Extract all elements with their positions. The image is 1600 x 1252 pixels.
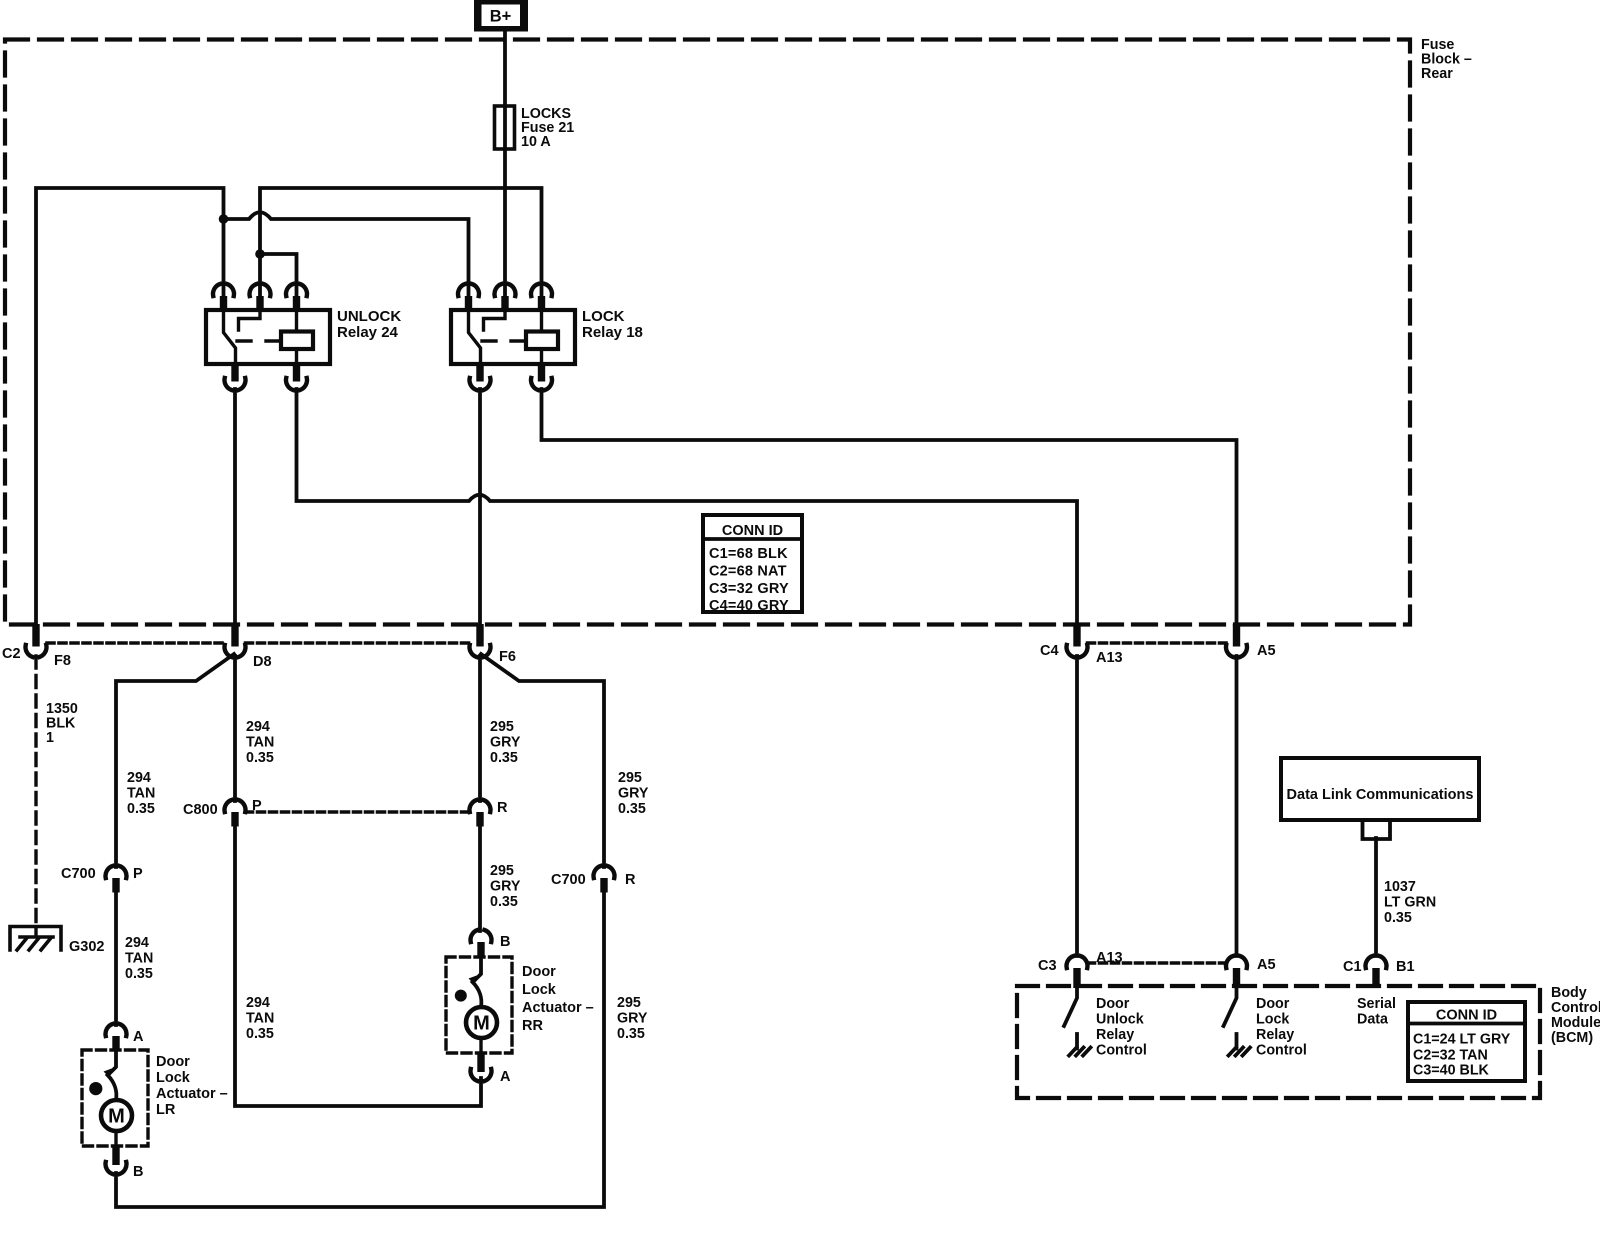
svg-text:0.35: 0.35 xyxy=(490,894,518,910)
svg-text:A: A xyxy=(500,1069,511,1085)
svg-text:B+: B+ xyxy=(490,8,512,26)
wire: C4 down to BCM C3 xyxy=(1075,656,1079,956)
connector C800 P xyxy=(224,800,245,827)
coil pin 86 top connector xyxy=(286,284,307,311)
wire: ground rail from C2/F8 up and across to UNLOCK relay pin 1 xyxy=(36,188,224,626)
junction node at (260,254) xyxy=(255,249,265,259)
wire label 295 GRY 0.35 (F6 column) xyxy=(490,719,521,766)
svg-text:Control: Control xyxy=(1256,1043,1307,1059)
svg-text:Serial: Serial xyxy=(1357,996,1396,1012)
CONN ID table (fuse block) xyxy=(703,515,802,614)
wire: F6 down to C800 R xyxy=(478,656,482,801)
svg-text:C700: C700 xyxy=(551,872,586,888)
svg-text:LOCK: LOCK xyxy=(582,308,625,325)
svg-text:Module: Module xyxy=(1551,1015,1600,1031)
connector C800 R xyxy=(469,800,490,827)
svg-text:R: R xyxy=(625,872,636,888)
wire: A5 down to BCM A5 xyxy=(1235,656,1239,956)
connector row dotted line C2-D8-F6 xyxy=(47,641,470,645)
svg-text:Relay 24: Relay 24 xyxy=(337,324,399,341)
C800 pass-through dotted line P-R xyxy=(246,810,470,814)
svg-text:C2=68 NAT: C2=68 NAT xyxy=(709,564,787,580)
wire: D8 branch diagonal to LR door lock actuator column xyxy=(116,654,234,867)
svg-text:C3=40 BLK: C3=40 BLK xyxy=(1413,1063,1490,1079)
svg-text:295: 295 xyxy=(490,719,514,735)
svg-text:Rear: Rear xyxy=(1421,66,1453,82)
wire label 295 GRY 0.35 (right column) xyxy=(618,770,649,817)
LR switch arrowhead xyxy=(104,1068,114,1078)
svg-text:294: 294 xyxy=(125,935,149,951)
svg-text:C1=68 BLK: C1=68 BLK xyxy=(709,546,788,562)
wire: LOCK coil return to A5 xyxy=(542,389,1237,628)
svg-text:A: A xyxy=(133,1029,144,1045)
svg-text:295: 295 xyxy=(618,770,642,786)
fixed contact from pin 87 xyxy=(484,311,506,330)
svg-text:295: 295 xyxy=(617,995,641,1011)
connector D8 xyxy=(224,624,245,657)
connector C3/A13 (BCM) xyxy=(1066,956,1087,988)
svg-text:0.35: 0.35 xyxy=(618,801,646,817)
wire: F6 branch diagonal to C700 R column xyxy=(481,654,604,867)
svg-text:GRY: GRY xyxy=(490,735,521,751)
connector C1/B1 (BCM) xyxy=(1365,956,1386,988)
svg-text:Unlock: Unlock xyxy=(1096,1012,1144,1028)
wire: C700 P down to LR actuator pin A xyxy=(114,891,118,1025)
BCM door unlock relay control switch xyxy=(1064,988,1077,1026)
fixed contact from pin 87 xyxy=(239,311,261,330)
svg-text:Lock: Lock xyxy=(522,982,557,998)
BCM unlock switch chassis ground xyxy=(1069,1034,1091,1056)
svg-text:LR: LR xyxy=(156,1102,176,1118)
coil return bottom connector xyxy=(286,364,307,390)
svg-text:D8: D8 xyxy=(253,654,272,670)
wire: C800 R down to RR actuator pin B xyxy=(478,825,482,931)
switch output bottom connector xyxy=(469,364,490,390)
svg-text:C700: C700 xyxy=(61,866,96,882)
wire label 1350 BLK 1 xyxy=(46,701,78,746)
svg-text:0.35: 0.35 xyxy=(246,1026,274,1042)
LR contact dot xyxy=(89,1082,102,1095)
svg-text:UNLOCK: UNLOCK xyxy=(337,308,401,325)
connector B (RR actuator) xyxy=(470,930,491,957)
BCM door lock relay control switch xyxy=(1224,988,1237,1026)
pin 87 top connector xyxy=(494,284,515,311)
wire: C800 P down, across bottom, up to RR actuator pin A xyxy=(235,825,481,1106)
svg-text:0.35: 0.35 xyxy=(246,750,274,766)
fuse LOCKS Fuse 21 10A xyxy=(495,106,515,149)
connector C700 R xyxy=(593,866,614,893)
svg-text:M: M xyxy=(473,1013,490,1035)
svg-text:Lock: Lock xyxy=(156,1070,191,1086)
svg-text:Control: Control xyxy=(1551,1000,1600,1016)
wire label 294 TAN 0.35 (below C700 P) xyxy=(125,935,153,982)
pin 87 top connector xyxy=(249,284,270,311)
svg-text:Lock: Lock xyxy=(1256,1012,1289,1028)
wire label 295 GRY 0.35 (below C800 R) xyxy=(490,863,521,910)
svg-text:Data Link Communications: Data Link Communications xyxy=(1287,787,1474,803)
svg-text:Door: Door xyxy=(522,964,556,980)
svg-text:Body: Body xyxy=(1551,985,1587,1001)
svg-text:B1: B1 xyxy=(1396,959,1415,975)
ground G302 xyxy=(10,927,61,951)
svg-text:P: P xyxy=(252,798,262,814)
svg-text:C2: C2 xyxy=(2,646,21,662)
svg-text:CONN ID: CONN ID xyxy=(722,523,783,539)
connector B (LR actuator, bottom) xyxy=(105,1146,126,1174)
DLC output bracket xyxy=(1363,821,1391,839)
svg-text:GRY: GRY xyxy=(490,879,521,895)
svg-text:294: 294 xyxy=(127,770,151,786)
body control module dashed border xyxy=(1017,986,1540,1098)
coil pin 86 top connector xyxy=(531,284,552,311)
coil lead xyxy=(540,311,543,364)
svg-text:C2=32 TAN: C2=32 TAN xyxy=(1413,1048,1488,1064)
svg-text:Actuator –: Actuator – xyxy=(522,1000,594,1016)
UNLOCK Relay 24 xyxy=(206,284,330,390)
switch blade xyxy=(469,311,481,364)
wire: branch from (260,254) to UNLOCK relay coil pin xyxy=(260,254,297,297)
svg-text:P: P xyxy=(133,866,143,882)
svg-text:TAN: TAN xyxy=(246,735,274,751)
Data Link Communications box xyxy=(1281,758,1479,820)
svg-text:C4: C4 xyxy=(1040,643,1059,659)
wire: 1350 BLK ground wire (dashed) xyxy=(34,656,37,935)
LR actuator label xyxy=(156,1054,228,1118)
wire: B+ feed down through fuse to LOCK relay pin (x=505) xyxy=(503,31,507,297)
svg-text:G302: G302 xyxy=(69,939,104,955)
svg-text:Control: Control xyxy=(1096,1043,1147,1059)
svg-text:Relay: Relay xyxy=(1256,1027,1294,1043)
switch blade xyxy=(224,311,236,364)
svg-text:0.35: 0.35 xyxy=(617,1026,645,1042)
coil return bottom connector xyxy=(531,364,552,390)
fuse block (rear) dashed border xyxy=(5,40,1410,625)
svg-text:(BCM): (BCM) xyxy=(1551,1030,1593,1046)
BCM label xyxy=(1551,985,1600,1046)
serial data label xyxy=(1357,996,1396,1028)
wire label 294 TAN 0.35 (left column) xyxy=(127,770,155,817)
RR actuator switch blade with arrow xyxy=(473,957,482,1007)
svg-text:10 A: 10 A xyxy=(521,134,551,150)
fuse block label xyxy=(1421,37,1472,82)
connector A (LR actuator) xyxy=(105,1024,126,1051)
svg-text:A5: A5 xyxy=(1257,643,1276,659)
svg-text:C3=32 GRY: C3=32 GRY xyxy=(709,581,789,597)
svg-text:Data: Data xyxy=(1357,1012,1389,1028)
wire: D8 down to C800 P xyxy=(233,656,237,801)
svg-text:RR: RR xyxy=(522,1018,543,1034)
junction node at (223.5,219) xyxy=(219,214,229,224)
connector row dotted line C4-A5 xyxy=(1088,641,1227,645)
door lock actuator LR box xyxy=(82,1050,148,1146)
svg-text:F8: F8 xyxy=(54,653,71,669)
fuse value label xyxy=(521,106,574,150)
svg-text:295: 295 xyxy=(490,863,514,879)
relay coil xyxy=(281,332,313,350)
svg-text:C4=40 GRY: C4=40 GRY xyxy=(709,598,789,614)
connector row dotted line C3-A5 xyxy=(1088,961,1227,965)
RR switch arrowhead xyxy=(469,975,479,985)
svg-text:B: B xyxy=(133,1164,143,1180)
svg-text:Door: Door xyxy=(1096,996,1130,1012)
switch output bottom connector xyxy=(224,364,245,390)
svg-text:TAN: TAN xyxy=(125,951,153,967)
wire: cross rail tying relay pin-1 columns (hops over x=260 wire) xyxy=(224,212,469,297)
connector A (RR actuator, bottom) xyxy=(470,1053,491,1081)
wire: LOCK switch output down to F6 xyxy=(478,389,482,626)
coil-to-switch dashed link xyxy=(237,339,280,342)
wire: serial data 1037 LT GRN to BCM C1 xyxy=(1374,838,1378,956)
svg-text:294: 294 xyxy=(246,995,270,1011)
RR actuator label xyxy=(522,964,594,1034)
connector C4/A13 xyxy=(1066,624,1087,657)
svg-text:0.35: 0.35 xyxy=(490,750,518,766)
svg-text:0.35: 0.35 xyxy=(125,966,153,982)
door lock actuator RR box xyxy=(446,957,512,1053)
svg-text:Relay: Relay xyxy=(1096,1027,1134,1043)
wire label 294 TAN 0.35 (centre column) xyxy=(246,719,274,766)
wire: UNLOCK switch output down to D8 xyxy=(233,389,237,626)
svg-text:Door: Door xyxy=(1256,996,1290,1012)
svg-text:LT GRN: LT GRN xyxy=(1384,895,1436,911)
svg-text:GRY: GRY xyxy=(617,1011,648,1027)
svg-text:Actuator –: Actuator – xyxy=(156,1086,228,1102)
svg-text:A13: A13 xyxy=(1096,650,1123,666)
pin 30 top connector xyxy=(213,284,234,311)
svg-text:M: M xyxy=(108,1106,125,1128)
svg-text:294: 294 xyxy=(246,719,270,735)
CONN ID table (BCM) xyxy=(1408,1002,1525,1081)
svg-text:F6: F6 xyxy=(499,649,516,665)
door unlock relay control label xyxy=(1096,996,1147,1059)
B+ battery feed terminal xyxy=(474,0,528,32)
relay coil xyxy=(526,332,558,350)
connector C2/F8 xyxy=(25,624,46,657)
wire: B+ fused rail across relay tops xyxy=(260,188,542,297)
pin 30 top connector xyxy=(458,284,479,311)
wire: C700 R down and across bottom to LR actuator pin B xyxy=(116,891,604,1207)
svg-text:R: R xyxy=(497,800,508,816)
wire label 295 GRY 0.35 (bottom right) xyxy=(617,995,648,1042)
svg-text:Relay 18: Relay 18 xyxy=(582,324,643,341)
RR motor M xyxy=(466,1007,497,1053)
svg-text:B: B xyxy=(500,934,510,950)
svg-text:C800: C800 xyxy=(183,802,218,818)
svg-text:C3: C3 xyxy=(1038,958,1057,974)
connector F6 xyxy=(469,624,490,657)
LOCK Relay 18 xyxy=(451,284,575,390)
connector A5 (fuse block) xyxy=(1226,624,1247,657)
LR motor M xyxy=(101,1100,132,1146)
svg-text:GRY: GRY xyxy=(618,786,649,802)
svg-text:A5: A5 xyxy=(1257,957,1276,973)
svg-text:0.35: 0.35 xyxy=(127,801,155,817)
svg-text:1037: 1037 xyxy=(1384,879,1416,895)
door lock relay control label xyxy=(1256,996,1307,1059)
svg-text:TAN: TAN xyxy=(127,786,155,802)
wire label 294 TAN 0.35 (centre lower) xyxy=(246,995,274,1042)
UNLOCK relay label xyxy=(337,308,401,341)
connector C700 P xyxy=(105,866,126,893)
wire: UNLOCK coil return to C4 (hops over F6 wire) xyxy=(297,389,1078,628)
svg-text:1: 1 xyxy=(46,730,54,746)
svg-text:0.35: 0.35 xyxy=(1384,910,1412,926)
LR actuator switch blade with arrow xyxy=(108,1050,117,1100)
BCM lock switch chassis ground xyxy=(1229,1034,1251,1056)
coil lead xyxy=(295,311,298,364)
wire label 1037 LT GRN 0.35 xyxy=(1384,879,1436,926)
svg-text:C1: C1 xyxy=(1343,959,1362,975)
svg-text:C1=24 LT GRY: C1=24 LT GRY xyxy=(1413,1032,1511,1048)
svg-text:Door: Door xyxy=(156,1054,190,1070)
RR contact dot xyxy=(455,990,467,1002)
LOCK relay label xyxy=(582,308,643,341)
svg-text:CONN ID: CONN ID xyxy=(1436,1008,1497,1024)
connector A5 (BCM) xyxy=(1226,956,1247,988)
svg-text:TAN: TAN xyxy=(246,1011,274,1027)
svg-text:A13: A13 xyxy=(1096,950,1123,966)
coil-to-switch dashed link xyxy=(482,339,525,342)
